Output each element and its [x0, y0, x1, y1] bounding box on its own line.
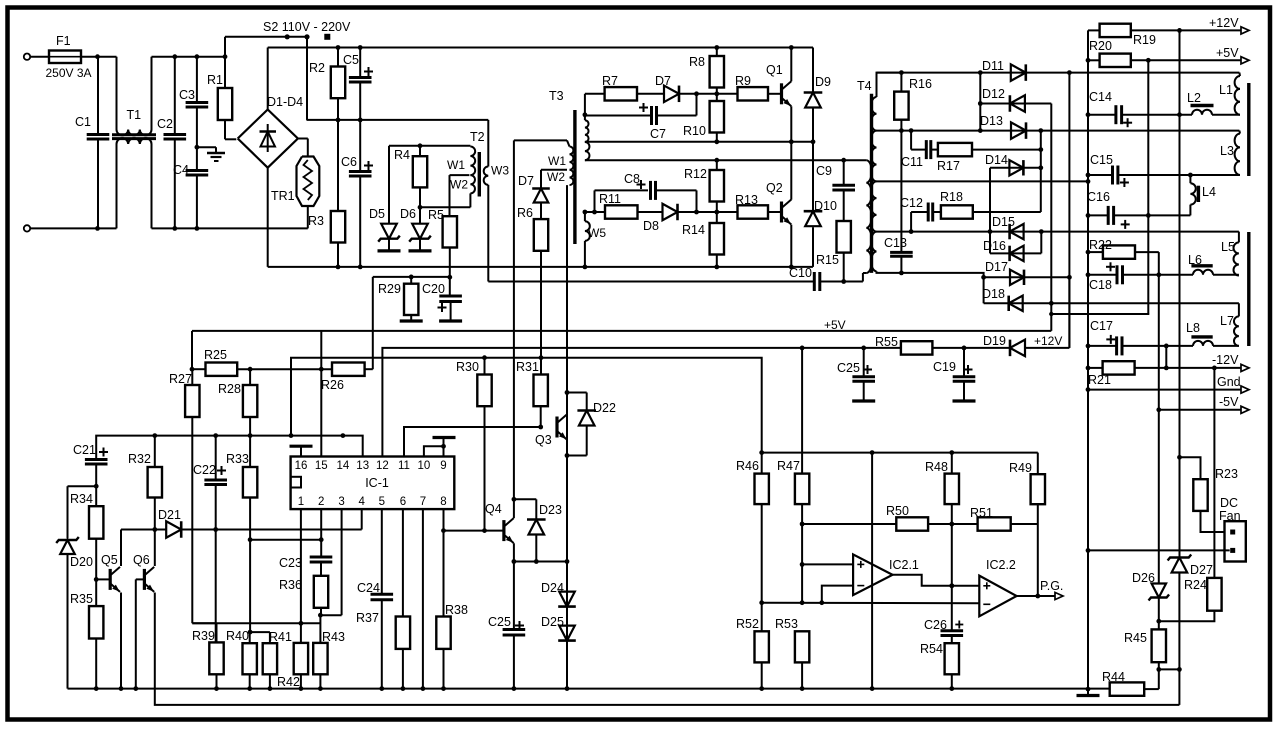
wire R12 bottom	[716, 202, 718, 213]
svg-text:-5V: -5V	[1219, 395, 1239, 409]
wire Q2 collector	[790, 142, 792, 200]
svg-text:D26: D26	[1132, 571, 1155, 585]
wire R14 top	[716, 212, 718, 223]
node pin14	[341, 433, 346, 438]
node C22 D21	[213, 527, 218, 532]
node R52 rail	[759, 686, 764, 691]
label +5V	[1216, 46, 1239, 60]
node C1 bottom	[95, 226, 100, 231]
node C13 bottom	[899, 271, 904, 276]
svg-text:W2: W2	[547, 170, 565, 184]
wire R46 bottom	[761, 504, 763, 603]
svg-text:R9: R9	[735, 74, 751, 88]
AC input terminal top	[24, 54, 30, 60]
svg-text:+5V: +5V	[824, 318, 846, 332]
svg-text:R22: R22	[1089, 238, 1112, 252]
svg-text:R53: R53	[775, 617, 798, 631]
label Q2	[766, 181, 783, 195]
label R39	[192, 629, 215, 643]
node -5V	[1156, 407, 1161, 412]
svg-text:+5V: +5V	[1216, 46, 1239, 60]
svg-text:S2 110V - 220V: S2 110V - 220V	[263, 20, 351, 34]
label R43	[322, 630, 345, 644]
resistor R36	[314, 576, 328, 608]
S2 contact 2	[304, 34, 309, 39]
svg-text:R18: R18	[940, 190, 963, 204]
node C9 top	[841, 158, 846, 163]
svg-text:R54: R54	[920, 642, 943, 656]
node R14 bottom	[714, 265, 719, 270]
wire pin4 riser	[361, 509, 363, 529]
wire divider mid row	[762, 602, 980, 605]
svg-text:D27: D27	[1190, 563, 1213, 577]
node R53 rail	[800, 686, 805, 691]
wire pin8 row	[444, 530, 504, 532]
wire R45 bottom	[1158, 662, 1160, 689]
wire R55 east	[932, 347, 1010, 349]
wire R48 vertical	[951, 453, 953, 631]
wire R6 bottom	[540, 251, 542, 375]
label +12V D19	[1034, 334, 1062, 348]
svg-text:D17: D17	[985, 260, 1008, 274]
wire R8 top	[716, 48, 718, 57]
wire T1 lower right down	[151, 144, 153, 228]
transistor Q1	[782, 81, 792, 106]
node D9 bottom	[811, 139, 816, 144]
capacitor C25	[503, 630, 526, 636]
wire Q5 emitter	[120, 593, 122, 689]
svg-text:R5: R5	[428, 208, 444, 222]
svg-text:R40: R40	[226, 629, 249, 643]
wire R47 vertical	[801, 348, 803, 474]
svg-text:T2: T2	[470, 130, 485, 144]
plus C18	[1106, 262, 1115, 271]
wire R1 bottom to bridge	[225, 120, 236, 139]
label R55	[875, 335, 898, 349]
resistor R30	[477, 375, 491, 407]
node rail to bus riser	[289, 433, 294, 438]
wire D11 row	[877, 72, 1240, 74]
svg-text:C21: C21	[73, 443, 96, 457]
svg-text:L4: L4	[1202, 185, 1216, 199]
wire R44 east	[1144, 688, 1159, 690]
wire ground stub	[197, 147, 216, 152]
plus C8	[637, 180, 646, 189]
label R24	[1184, 578, 1207, 592]
wire R49 bottom	[1037, 504, 1039, 596]
capacitor C24	[371, 594, 394, 600]
label Q4	[485, 502, 502, 516]
svg-text:C4: C4	[173, 163, 189, 177]
resistor R33	[243, 467, 257, 498]
node R25 west	[190, 367, 195, 372]
wire D13 row	[877, 130, 1240, 132]
plus C20	[438, 303, 447, 312]
wire R47 bottom	[801, 504, 803, 603]
capacitor C11	[926, 140, 931, 159]
wire C12 jog	[911, 212, 928, 232]
label L8	[1186, 321, 1200, 335]
wire C19 top	[963, 348, 965, 377]
svg-text:R26: R26	[321, 378, 344, 392]
svg-text:Gnd: Gnd	[1217, 375, 1241, 389]
wire R51 east	[1011, 523, 1038, 525]
wire R22 west	[1088, 251, 1103, 253]
T2 core	[478, 152, 481, 197]
pin16 T-bar	[290, 446, 313, 456]
opamp IC2.2	[979, 576, 1016, 617]
capacitor C10	[814, 272, 820, 291]
wire R40 bottom	[249, 674, 251, 688]
wire R33 bottom	[249, 498, 251, 633]
wire C6 bottom	[359, 176, 361, 267]
svg-text:R44: R44	[1102, 670, 1125, 684]
wire R24 bottom	[1159, 611, 1215, 622]
wire R28 link	[249, 369, 251, 385]
wire C13 bottom row	[877, 271, 984, 277]
node C14 +12V	[1177, 112, 1182, 117]
wire R4 top	[419, 146, 421, 156]
T4 secondary winding s4	[871, 232, 876, 272]
wire C3 top	[196, 57, 198, 103]
svg-text:D19: D19	[983, 334, 1006, 348]
svg-text:W1: W1	[447, 158, 465, 172]
wire R28 to R33	[249, 417, 251, 467]
resistor R14	[710, 223, 724, 255]
wire D21 east	[181, 529, 362, 531]
svg-text:P.G.: P.G.	[1040, 579, 1063, 593]
label Fan	[1219, 509, 1241, 523]
resistor R13	[738, 205, 769, 218]
wire R12 top	[716, 160, 718, 170]
capacitor C18	[1117, 265, 1123, 284]
node C5 top	[358, 45, 363, 50]
T3 primary winding upper	[585, 120, 589, 142]
diode D9	[804, 93, 823, 108]
wire D17 row	[984, 276, 1070, 278]
label R14	[682, 223, 705, 237]
wire bottom rail T1 to TR1	[152, 227, 308, 229]
svg-text:W3: W3	[491, 164, 509, 178]
wire R51 row	[952, 523, 978, 525]
label R11	[599, 192, 621, 206]
wire C22 top	[215, 436, 217, 480]
node D17 bus A	[1067, 275, 1072, 280]
wire R29 row	[373, 276, 450, 278]
node R43 rail	[318, 686, 323, 691]
T4 secondary winding s3	[871, 181, 876, 231]
label C4	[173, 163, 189, 177]
node D12 D13 riser	[978, 101, 983, 106]
svg-text:D7: D7	[518, 174, 534, 188]
node D24 top	[565, 559, 570, 564]
wire T1 upper right up	[151, 57, 153, 130]
label L4	[1202, 185, 1216, 199]
node R36 R43	[318, 613, 323, 618]
wire L6 east	[1213, 274, 1239, 276]
D5 T-bar	[378, 249, 401, 252]
svg-text:D6: D6	[400, 207, 416, 221]
label R4	[394, 148, 410, 162]
svg-text:TR1: TR1	[271, 189, 295, 203]
label C7	[650, 127, 666, 141]
svg-text:C6: C6	[341, 155, 357, 169]
node R48 R50 R51	[949, 522, 954, 527]
svg-text:T3: T3	[549, 89, 564, 103]
wire R31 bottom	[540, 406, 542, 427]
label D12	[982, 87, 1005, 101]
label DC	[1220, 496, 1238, 510]
label C16	[1087, 190, 1110, 204]
label W3	[491, 164, 509, 178]
svg-text:D23: D23	[539, 503, 562, 517]
wire C18 row	[1088, 274, 1193, 276]
wire +5V internal line	[192, 330, 1051, 332]
svg-text:C22: C22	[193, 463, 216, 477]
wire D19 east	[1025, 277, 1069, 348]
label T2	[470, 130, 485, 144]
wire D8 east	[678, 211, 738, 213]
inductor L7	[1234, 303, 1239, 346]
label -5V	[1219, 395, 1239, 409]
arrow PG	[1055, 592, 1063, 599]
capacitor C26	[941, 631, 964, 636]
inductor L6	[1191, 266, 1213, 275]
wire R40 R41 jog	[250, 632, 270, 643]
node R17 bus C	[1038, 147, 1043, 152]
wire R43 top	[319, 615, 321, 643]
T4 primary winding	[863, 160, 872, 273]
wire T2 tap to R5	[450, 175, 470, 216]
node C17 jog	[1164, 344, 1169, 349]
svg-text:C13: C13	[884, 236, 907, 250]
capacitor C14	[1116, 105, 1122, 124]
wire plus input row	[802, 563, 853, 565]
label D24	[541, 581, 564, 595]
diode D27	[1168, 555, 1192, 573]
wire D20 bottom	[67, 554, 69, 689]
wire D23 bottom	[535, 535, 537, 562]
bridge diode symbol	[260, 124, 277, 152]
svg-text:C5: C5	[343, 53, 359, 67]
wire R16 top stub	[900, 73, 902, 92]
wire C25b top	[863, 348, 865, 377]
wire +12V row	[1131, 29, 1241, 31]
resistor R20	[1100, 54, 1131, 67]
capacitor C1	[87, 135, 110, 140]
pin2 stem	[320, 509, 322, 557]
wire R3 top	[337, 120, 339, 211]
DC fan box	[1225, 521, 1246, 561]
plus C22	[217, 466, 226, 475]
svg-text:14: 14	[337, 460, 350, 472]
svg-text:R24: R24	[1184, 578, 1207, 592]
label IC2.2	[986, 558, 1016, 572]
label TR1	[271, 189, 295, 203]
resistor R46	[755, 474, 769, 505]
pin5 stem	[381, 509, 383, 594]
wire R14 bottom	[716, 255, 718, 267]
label R27	[169, 372, 192, 386]
wire C13 top	[900, 131, 902, 253]
svg-text:L3: L3	[1220, 144, 1234, 158]
S2 contact 3	[324, 34, 330, 40]
wire C1 bottom	[97, 139, 99, 228]
svg-text:Q2: Q2	[766, 181, 783, 195]
node R16 top	[899, 70, 904, 75]
label D11	[982, 59, 1004, 73]
node R32 rail	[152, 433, 157, 438]
T3 W5 winding	[585, 221, 590, 241]
node D15 riser	[988, 229, 993, 234]
node R21 west	[1086, 366, 1091, 371]
svg-text:R17: R17	[937, 159, 960, 173]
node R8 top	[714, 45, 719, 50]
node Q5 emitter rail	[119, 686, 124, 691]
wire D5 top	[388, 146, 390, 224]
wire F1 to C1 node	[81, 56, 117, 58]
label R53	[775, 617, 798, 631]
diode D21	[166, 521, 181, 538]
label Gnd	[1217, 375, 1241, 389]
plus C14	[1123, 118, 1132, 127]
label C15	[1090, 153, 1113, 167]
wire R2 top	[337, 48, 339, 67]
wire R20 west	[1088, 59, 1100, 61]
label R20	[1089, 39, 1112, 53]
wire C6 top	[359, 120, 361, 172]
gnd symbol secondary	[1077, 689, 1100, 695]
label D8	[643, 219, 659, 233]
node R12 top	[714, 158, 719, 163]
label R22	[1089, 238, 1112, 252]
label R40	[226, 629, 249, 643]
label Q5	[101, 553, 118, 567]
svg-text:L7: L7	[1220, 314, 1234, 328]
resistor R17	[938, 143, 972, 156]
node C11 jog top	[909, 128, 914, 133]
switch S2 rail	[225, 36, 307, 38]
resistor R23	[1193, 479, 1207, 511]
pin9 stem	[433, 438, 456, 457]
node R40 jog	[248, 630, 253, 635]
wire R29 stub	[410, 315, 412, 320]
capacitor C7	[652, 106, 657, 125]
wire bridge bottom	[267, 168, 269, 267]
node C7 top	[694, 91, 699, 96]
resistor R35	[89, 606, 103, 638]
inductor L4	[1190, 183, 1198, 204]
label S2 110V - 220V	[263, 20, 351, 34]
svg-text:C25: C25	[837, 361, 860, 375]
node ref top	[870, 450, 875, 455]
label R48	[925, 460, 948, 474]
svg-text:C23: C23	[279, 556, 302, 570]
label R38	[445, 603, 468, 617]
label C1	[75, 115, 91, 129]
wire V514 drive	[513, 140, 515, 518]
wire T3 bottom row	[585, 159, 866, 161]
svg-text:R21: R21	[1088, 373, 1111, 387]
label C21	[73, 443, 96, 457]
node Q4 emitter row	[512, 559, 517, 564]
wire R52 bottom	[761, 662, 763, 688]
wire R39 bottom	[216, 674, 218, 688]
wire C15 row	[1088, 174, 1240, 176]
resistor R26	[332, 363, 365, 376]
wire D20 jog	[68, 486, 97, 538]
label C14	[1089, 90, 1112, 104]
node R46 top	[759, 450, 764, 455]
bridge rectifier D1-D4	[238, 110, 298, 168]
wire D23 jog	[514, 499, 536, 519]
transistor Q3	[557, 415, 567, 440]
wire -12V row	[1135, 367, 1241, 369]
resistor R51	[978, 517, 1011, 530]
transistor Q6	[144, 567, 154, 592]
svg-text:9: 9	[440, 460, 446, 472]
wire R10 bottom	[716, 133, 718, 142]
wire C13 bottom	[900, 256, 902, 273]
diode D17	[1010, 270, 1024, 285]
wire TR1 bottom	[307, 206, 309, 228]
svg-text:R50: R50	[886, 504, 909, 518]
wire R38 bottom	[443, 649, 445, 689]
svg-text:W2: W2	[450, 178, 468, 192]
transistor Q4	[504, 518, 514, 543]
wire +5V line west drop	[191, 331, 193, 369]
node R4 top	[418, 143, 423, 148]
wire C10 east	[820, 281, 863, 283]
C20 T-bar	[439, 319, 462, 322]
wire bridge right to TR1	[298, 139, 308, 157]
label C24	[357, 581, 380, 595]
capacitor C22	[204, 480, 227, 485]
T3 core	[573, 110, 576, 244]
label L3	[1220, 144, 1234, 158]
svg-text:C15: C15	[1090, 153, 1113, 167]
wire C25b stub	[863, 381, 865, 399]
svg-text:4: 4	[358, 496, 365, 508]
resistor R3	[331, 211, 345, 243]
node C16 +5V bus	[1146, 213, 1151, 218]
svg-text:R19: R19	[1133, 33, 1156, 47]
wire D22 bottom	[567, 426, 587, 456]
node C4 bottom	[195, 226, 200, 231]
svg-text:R49: R49	[1009, 461, 1032, 475]
node D18 bus B	[1049, 301, 1054, 306]
node R47 R50	[800, 522, 805, 527]
svg-text:R15: R15	[816, 253, 839, 267]
wire D7 to R9 row	[679, 93, 738, 95]
capacitor C4	[186, 171, 209, 176]
capacitor C17	[1117, 336, 1122, 355]
wire R15 bottom	[843, 253, 845, 282]
T4 top stub	[877, 73, 902, 97]
T3 primary winding lower	[585, 142, 590, 160]
node Q5 base node	[94, 577, 99, 582]
svg-text:2: 2	[318, 496, 324, 508]
wire R4 bottom	[419, 187, 421, 207]
diode D7 drive	[532, 189, 550, 203]
resistor R47	[795, 474, 809, 505]
wire R50 east	[928, 523, 952, 525]
label C6	[341, 155, 357, 169]
svg-text:R41: R41	[269, 630, 292, 644]
label R10	[683, 124, 706, 138]
node D22 return	[565, 453, 570, 458]
wire C14 row	[1088, 114, 1240, 116]
